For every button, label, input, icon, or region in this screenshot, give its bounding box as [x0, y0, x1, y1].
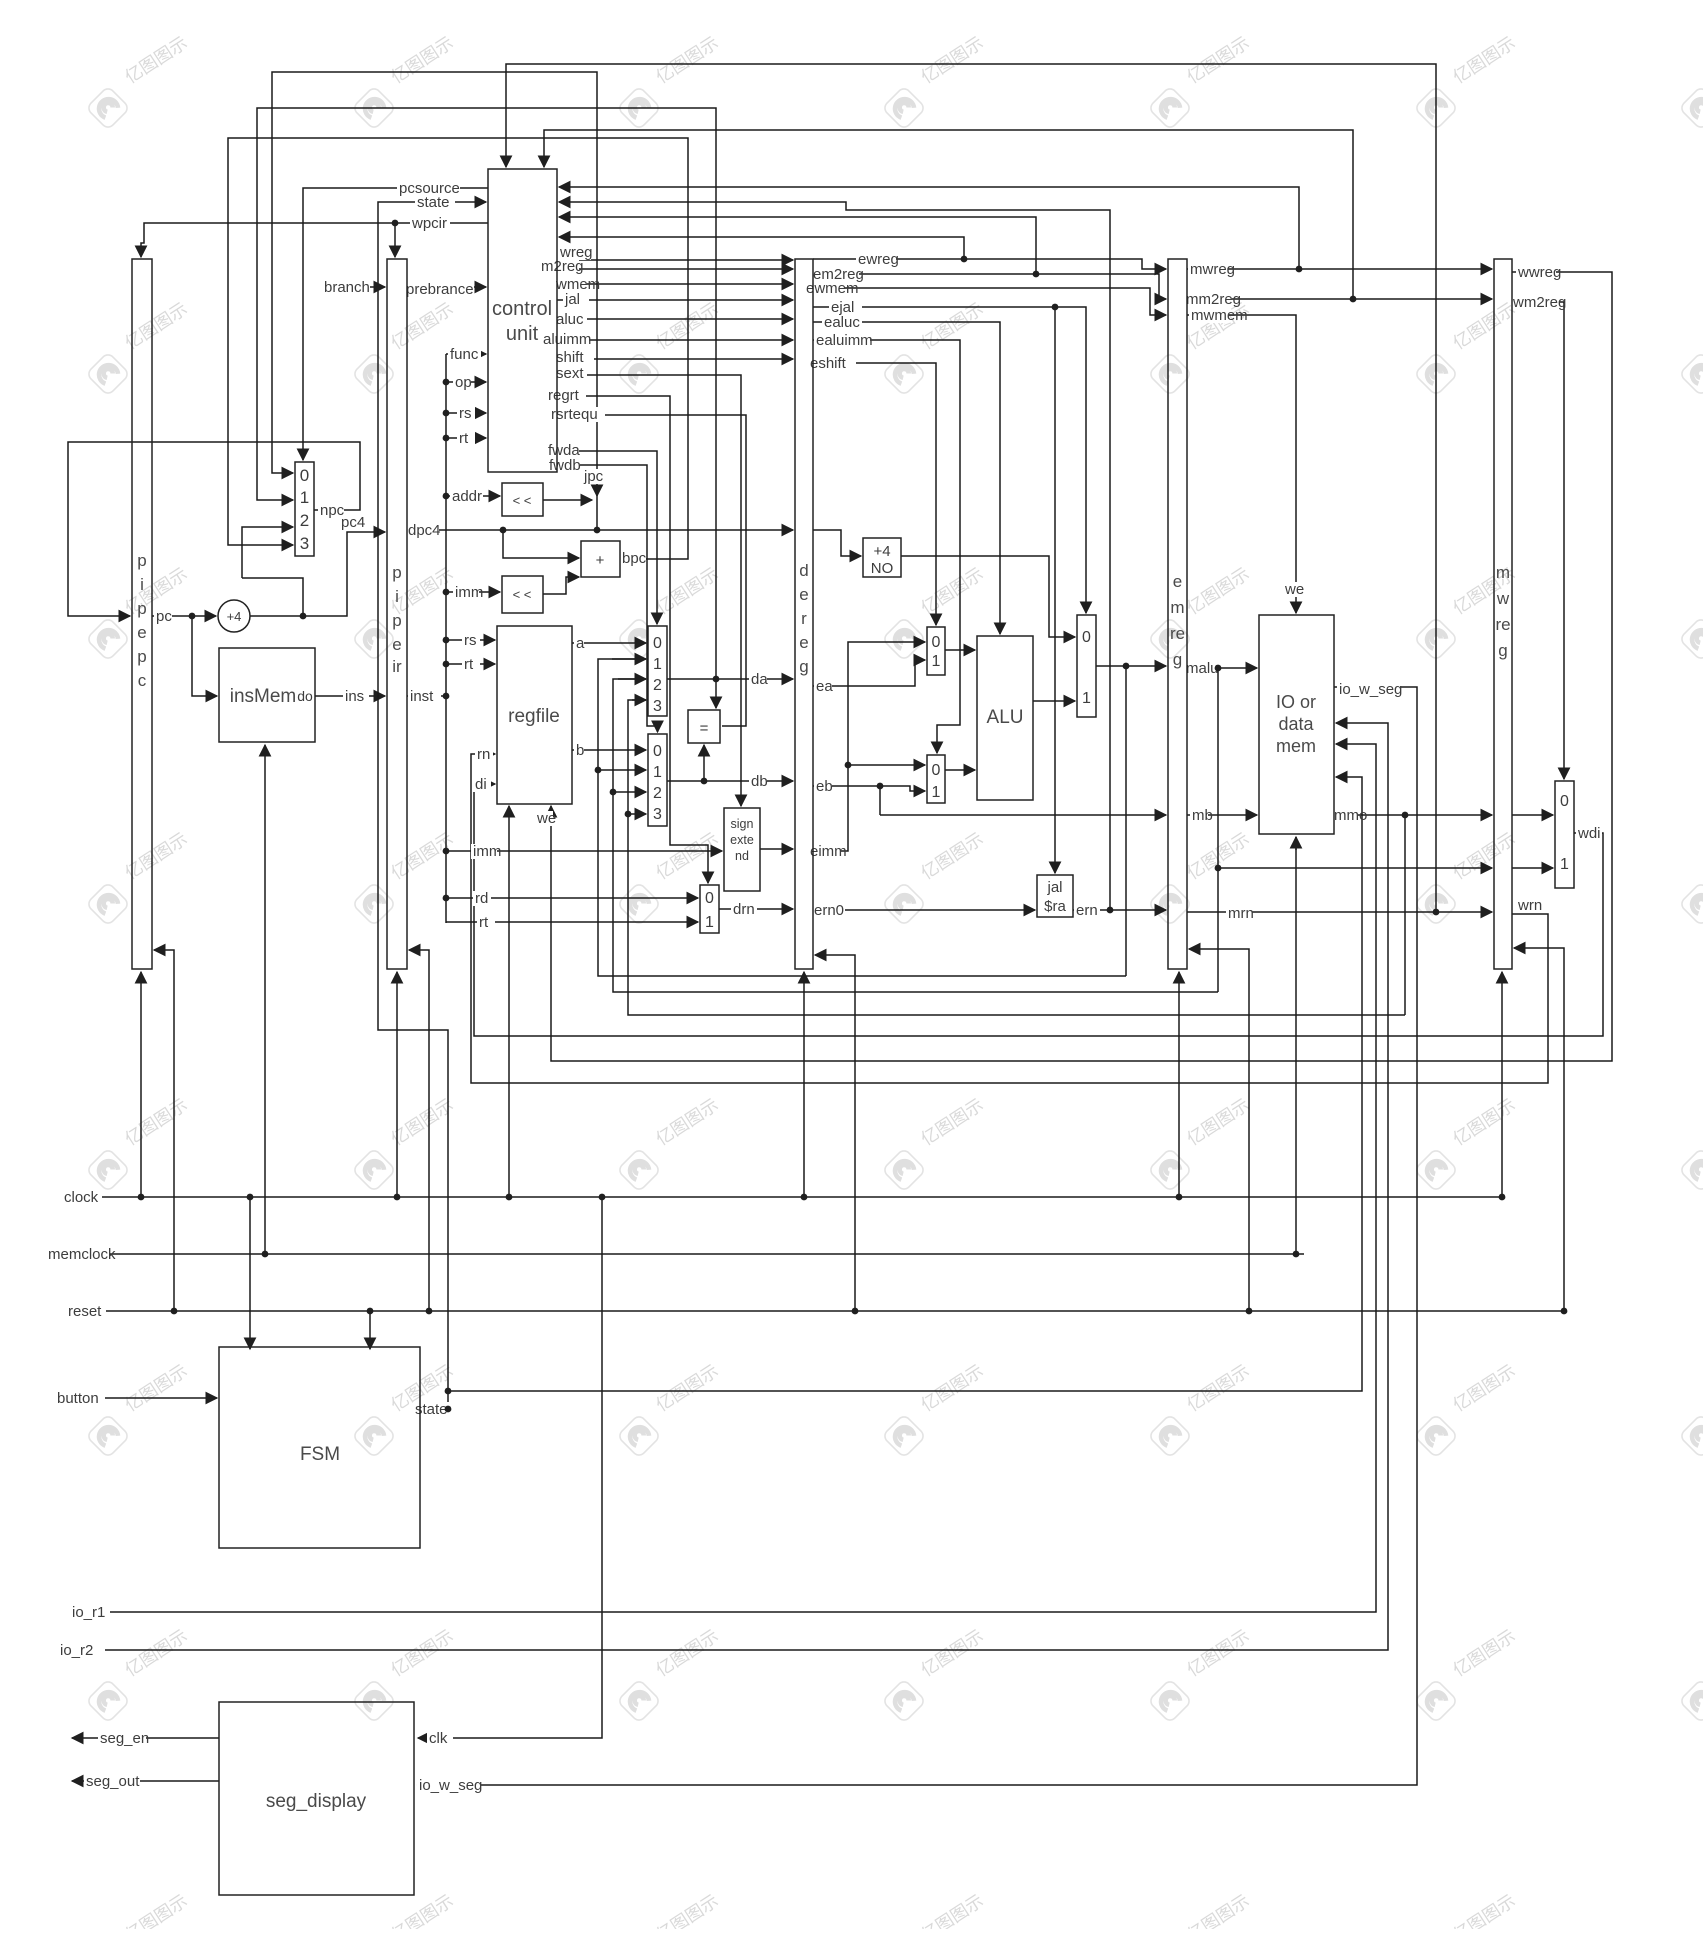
svg-text:pc: pc — [156, 608, 172, 625]
svg-text:0: 0 — [653, 635, 662, 652]
svg-text:rt: rt — [459, 430, 469, 447]
svg-text:jal: jal — [1046, 879, 1062, 896]
svg-text:eimm: eimm — [810, 843, 847, 860]
io_w_seg to seg_display — [418, 687, 1417, 1785]
svg-text:m: m — [1170, 598, 1184, 617]
shifter output jpc — [543, 499, 592, 501]
svg-text:di: di — [475, 776, 487, 793]
svg-text:insMem: insMem — [230, 686, 297, 707]
svg-text:2: 2 — [300, 511, 309, 530]
svg-text:memclock: memclock — [48, 1246, 116, 1263]
adder + (bpc) — [581, 541, 620, 577]
net ins — [343, 689, 369, 704]
rt into control unit — [446, 437, 486, 439]
rt into drn mux — [446, 921, 698, 923]
svg-text:addr: addr — [452, 488, 482, 505]
seg_en out of seg_display — [72, 1737, 219, 1739]
reset into FSM — [369, 1311, 371, 1349]
ewreg into emreg — [813, 259, 1166, 269]
svg-text:rsrtequ: rsrtequ — [551, 406, 598, 423]
mmo forwarding to mux B input 1 — [598, 769, 646, 771]
reset into pipeir — [409, 950, 429, 1311]
mmo into wdi mux input 0 — [1512, 814, 1553, 816]
svg-text:clock: clock — [64, 1189, 99, 1206]
adder +4 — [218, 600, 250, 632]
svg-text:io_w_seg: io_w_seg — [1339, 681, 1402, 698]
svg-text:data: data — [1278, 714, 1314, 734]
control signal wmem into dereg — [557, 283, 793, 285]
svg-text:prebrance: prebrance — [406, 281, 474, 298]
net eb — [814, 779, 832, 794]
mux B (4-to-1) — [648, 734, 667, 826]
db into comparator = — [703, 745, 705, 781]
net ealuimm — [814, 333, 870, 348]
malu into emreg — [1096, 665, 1166, 667]
pin state FSM — [413, 1402, 453, 1417]
svg-text:wwreg: wwreg — [1517, 264, 1561, 281]
svg-text:w: w — [1496, 589, 1510, 608]
net bpc — [620, 551, 646, 566]
svg-text:op: op — [455, 374, 472, 391]
net dpc4 — [406, 523, 439, 538]
svg-text:3: 3 — [653, 806, 662, 823]
svg-text:reset: reset — [68, 1303, 102, 1320]
pc4 into npc input 2 — [242, 527, 293, 578]
control signal jal into dereg — [557, 299, 793, 301]
eimm into mux ea input 0 — [813, 642, 925, 851]
clock into dereg — [803, 972, 805, 1197]
net wdi — [1576, 826, 1602, 841]
svg-text:regrt: regrt — [548, 387, 580, 404]
mux ea output into ALU — [945, 649, 975, 651]
svg-text:i: i — [395, 587, 399, 606]
net jal — [563, 292, 589, 307]
svg-text:aluimm: aluimm — [543, 331, 591, 348]
svg-text:1: 1 — [653, 764, 662, 781]
svg-text:r: r — [801, 609, 807, 628]
net io_w_seg — [1337, 682, 1400, 697]
mux eb (2-to-1) — [927, 755, 945, 803]
mux rd/rt (drn) — [700, 885, 719, 933]
reset into pipepc — [154, 950, 174, 1311]
net inst — [408, 689, 441, 704]
net state — [415, 195, 455, 210]
net pcsource — [397, 181, 460, 196]
net wwreg — [1516, 265, 1556, 280]
net wm2reg — [1511, 295, 1559, 310]
svg-text:wpcir: wpcir — [411, 215, 447, 232]
ern feedback into control unit right — [559, 202, 1110, 910]
svg-text:mm2reg: mm2reg — [1186, 291, 1241, 308]
net func — [448, 347, 481, 362]
svg-text:exte: exte — [730, 833, 754, 847]
jpc loop into npc input 0 — [272, 72, 597, 530]
ea into mux ea input 1 — [813, 660, 925, 686]
pc into +4 adder — [152, 615, 216, 617]
svg-text:0: 0 — [932, 762, 941, 779]
net shift — [554, 350, 594, 365]
net da — [749, 672, 767, 687]
net wreg — [558, 245, 591, 260]
inst out of pipeir — [407, 695, 446, 697]
net clock — [62, 1190, 102, 1205]
net mb — [1190, 808, 1208, 823]
db into dereg — [667, 780, 793, 782]
malu into mwreg — [1218, 867, 1492, 869]
regfile output b into mux B — [572, 749, 646, 751]
em2reg into emreg — [813, 274, 1166, 299]
rsrtequ from comparator = — [557, 415, 746, 726]
svg-text:mwreg: mwreg — [1190, 261, 1235, 278]
net imm — [453, 585, 479, 600]
fwdb to mux B select — [557, 465, 658, 732]
svg-text:we: we — [1284, 581, 1304, 598]
net ealuc — [822, 315, 862, 330]
dpc4 into adder + — [503, 530, 579, 558]
memclock line — [105, 1253, 1304, 1255]
svg-text:bpc: bpc — [622, 550, 647, 567]
svg-text:1: 1 — [1082, 690, 1091, 707]
rs into control unit — [446, 412, 486, 414]
svg-text:da: da — [751, 671, 768, 688]
net mm2reg — [1184, 292, 1232, 307]
rs into regfile — [446, 639, 495, 641]
mux npc (4-to-1) — [295, 462, 314, 556]
net a — [574, 636, 584, 651]
svg-text:imm: imm — [473, 843, 501, 860]
svg-text:wrn: wrn — [1517, 897, 1542, 914]
em2reg feedback into control unit right — [559, 217, 1036, 274]
net db — [749, 774, 767, 789]
ejal to jal unit select — [1054, 307, 1056, 873]
net wpcir — [410, 216, 450, 231]
net mrn — [1226, 906, 1252, 921]
net ern — [1074, 903, 1100, 918]
svg-text:ern0: ern0 — [814, 902, 844, 919]
svg-text:jal: jal — [564, 291, 580, 308]
reset into emreg right edge — [1189, 949, 1249, 1311]
func into control unit — [446, 353, 486, 355]
IO or data mem — [1259, 615, 1334, 834]
net reset — [66, 1304, 106, 1319]
svg-text:wm2reg: wm2reg — [1512, 294, 1566, 311]
svg-text:2: 2 — [653, 677, 662, 694]
mwmem to IO write enable — [1187, 315, 1296, 613]
svg-text:regfile: regfile — [508, 706, 560, 727]
net mwreg — [1188, 262, 1228, 277]
svg-text:< <: < < — [513, 493, 532, 508]
net seg_en — [98, 1731, 146, 1746]
svg-text:p: p — [137, 551, 146, 570]
wpcir to pipeir top — [394, 223, 396, 257]
svg-text:1: 1 — [932, 653, 941, 670]
net mwmem — [1189, 308, 1229, 323]
svg-text:re: re — [1495, 615, 1510, 634]
svg-text:ins: ins — [345, 688, 364, 705]
clock into regfile — [508, 806, 510, 1197]
svg-text:mrn: mrn — [1228, 905, 1254, 922]
wwreg to regfile write enable — [551, 272, 1612, 1061]
svg-text:g: g — [1173, 650, 1182, 669]
svg-text:p: p — [392, 611, 401, 630]
svg-text:drn: drn — [733, 901, 755, 918]
eb into mux eb input 1 — [813, 786, 925, 791]
mux eb output into ALU — [945, 769, 975, 771]
seg_display — [219, 1702, 414, 1895]
svg-text:do: do — [297, 688, 313, 704]
net button — [55, 1391, 103, 1406]
rd into drn mux — [446, 897, 698, 899]
da into comparator = — [715, 679, 717, 708]
seg_out out of seg_display — [72, 1780, 219, 1782]
svg-text:< <: < < — [513, 587, 532, 602]
mmo forwarding branch down — [1404, 815, 1406, 1015]
dpc4 into dereg — [407, 529, 793, 531]
+4 NO output into mux input 0 — [901, 556, 1075, 637]
eb branch to mb line — [879, 786, 881, 815]
net io_r2 — [58, 1643, 98, 1658]
net imm signext — [471, 844, 497, 859]
pipeline register pipeir — [387, 259, 407, 969]
control signal aluimm into dereg — [557, 339, 793, 341]
drn into dereg — [719, 908, 793, 910]
eimm into dereg — [760, 848, 793, 850]
malu forwarding to mux A input 2 — [613, 679, 1218, 992]
jpc junction arrow — [596, 488, 598, 496]
FSM — [219, 1347, 420, 1548]
ern into emreg — [1073, 909, 1166, 911]
ealu forwarding to mux A input 1 — [598, 659, 1126, 976]
svg-text:0: 0 — [1082, 629, 1091, 646]
net eimm — [808, 844, 841, 859]
comparator = — [688, 710, 720, 743]
mb into emreg — [880, 814, 1166, 816]
net ewmem — [804, 281, 844, 296]
net eshift — [808, 356, 856, 371]
svg-text:pc4: pc4 — [341, 514, 365, 531]
svg-text:io_r2: io_r2 — [60, 1642, 93, 1659]
mux after ALU (2-to-1) — [1077, 615, 1096, 717]
svg-text:ea: ea — [816, 678, 833, 695]
svg-text:m: m — [1496, 563, 1510, 582]
net b — [574, 743, 584, 758]
svg-text:+: + — [596, 552, 605, 569]
svg-text:2: 2 — [653, 785, 662, 802]
svg-text:dpc4: dpc4 — [408, 522, 441, 539]
net rs — [457, 406, 475, 421]
pc4 into pipeir — [250, 532, 385, 616]
net mmo — [1332, 808, 1358, 823]
svg-text:ALU: ALU — [987, 707, 1024, 728]
svg-text:p: p — [392, 563, 401, 582]
svg-text:ealuc: ealuc — [824, 314, 860, 331]
net wmem — [554, 277, 587, 292]
da loop into npc input 1 — [257, 108, 716, 679]
button into FSM — [105, 1397, 217, 1399]
svg-text:shift: shift — [556, 349, 584, 366]
mrn into mwreg — [1187, 911, 1492, 913]
wm2reg to wdi mux select — [1512, 302, 1564, 779]
malu forwarding to mux B input 2 — [613, 791, 646, 793]
memclock riser to IO bottom — [1295, 837, 1297, 1254]
ewmem into emreg — [813, 288, 1166, 315]
svg-text:1: 1 — [653, 656, 662, 673]
net em2reg — [811, 267, 859, 282]
svg-text:rs: rs — [464, 632, 477, 649]
net fwdb — [547, 458, 580, 473]
svg-text:func: func — [450, 346, 479, 363]
eshift to mux ea select — [813, 363, 936, 625]
mm2reg feedback into control unit top — [544, 130, 1353, 299]
clock clk into seg_display — [418, 1197, 602, 1738]
mwreg feedback into control unit right — [559, 187, 1299, 269]
svg-text:0: 0 — [932, 634, 941, 651]
inst field distribution bus — [445, 354, 447, 923]
svg-text:jpc: jpc — [583, 468, 604, 485]
mmo forwarding to mux B input 3 — [628, 813, 646, 815]
svg-text:rn: rn — [477, 746, 490, 763]
ALU output into mux input 1 — [1033, 700, 1075, 702]
net regrt — [546, 388, 586, 403]
svg-text:e: e — [1173, 572, 1182, 591]
pin io_w_seg seg_display — [417, 1778, 480, 1793]
svg-text:mb: mb — [1192, 807, 1213, 824]
mux wdi (2-to-1) — [1555, 781, 1574, 888]
svg-text:ern: ern — [1076, 902, 1098, 919]
pin clk seg_display — [427, 1731, 453, 1746]
imm into shifter — [446, 591, 500, 593]
control signal wreg into dereg — [557, 259, 793, 261]
net ern0 — [812, 903, 845, 918]
svg-text:wdi: wdi — [1577, 825, 1601, 842]
svg-text:seg_en: seg_en — [100, 1730, 149, 1747]
svg-text:0: 0 — [653, 743, 662, 760]
svg-text:1: 1 — [300, 488, 309, 507]
svg-text:b: b — [576, 742, 584, 759]
mb into IO or data mem — [1187, 814, 1257, 816]
svg-text:malu: malu — [1186, 660, 1219, 677]
net prebrance — [404, 282, 474, 297]
svg-text:db: db — [751, 773, 768, 790]
net aluc — [554, 312, 587, 327]
svg-text:seg_out: seg_out — [86, 1773, 140, 1790]
net jpc — [582, 469, 608, 484]
malu forwarding branch down — [1217, 668, 1219, 992]
net ea — [814, 679, 832, 694]
+4 NO unit — [863, 538, 901, 577]
clock into emreg — [1178, 972, 1180, 1197]
svg-text:ir: ir — [392, 657, 402, 676]
io_r2 into IO or data mem — [105, 723, 1388, 1650]
pc into insMem — [192, 616, 217, 696]
svg-text:g: g — [1498, 641, 1507, 660]
net rs regfile — [462, 633, 480, 648]
svg-text:nd: nd — [735, 849, 749, 863]
ins into pipeir — [315, 695, 385, 697]
ALU — [977, 636, 1033, 800]
state from FSM into control unit — [378, 202, 486, 1409]
mmo into mwreg — [1334, 814, 1492, 816]
state into IO or data mem — [448, 777, 1362, 1391]
control unit — [488, 169, 557, 472]
svg-text:e: e — [799, 633, 808, 652]
fwda to mux A select — [557, 451, 657, 624]
pipeline register dereg — [795, 259, 813, 969]
net pc — [154, 609, 172, 624]
svg-text:rs: rs — [459, 405, 472, 422]
rt into regfile — [446, 663, 495, 665]
ealuc to ALU select — [813, 322, 1000, 634]
svg-text:io_r1: io_r1 — [72, 1604, 105, 1621]
reset line — [105, 1310, 1564, 1312]
svg-text:mmo: mmo — [1334, 807, 1367, 824]
svg-text:=: = — [700, 720, 709, 737]
wdi to regfile di — [474, 784, 1603, 1036]
pipeline register pipepc — [132, 259, 152, 969]
net pc4 — [339, 515, 365, 530]
shifted imm into adder + — [543, 577, 579, 594]
net addr — [450, 489, 483, 504]
control signal m2reg into dereg — [557, 268, 793, 270]
mux ea (2-to-1) — [927, 627, 945, 675]
wrn to regfile rn — [471, 754, 1548, 1083]
svg-text:eshift: eshift — [810, 355, 847, 372]
svg-text:seg_display: seg_display — [266, 1791, 367, 1812]
svg-text:m2reg: m2reg — [541, 258, 584, 275]
svg-text:FSM: FSM — [300, 1444, 340, 1465]
ealuimm to mux eb select — [813, 340, 960, 753]
net ejal — [829, 300, 862, 315]
svg-text:g: g — [799, 657, 808, 676]
svg-text:control: control — [492, 298, 552, 320]
svg-text:e: e — [137, 623, 146, 642]
npc feedback loop into pipepc — [68, 442, 360, 616]
io_r1 into IO or data mem — [105, 744, 1376, 1612]
net rt drn — [477, 915, 495, 930]
net rsrtequ — [549, 407, 605, 422]
clock into FSM — [249, 1197, 251, 1349]
net fwda — [546, 443, 579, 458]
svg-text:state: state — [417, 194, 450, 211]
net ewreg — [856, 252, 896, 267]
memclock into insMem — [264, 745, 266, 1254]
shifter << (imm) — [502, 576, 543, 613]
svg-text:1: 1 — [705, 914, 714, 931]
pc4 branch to npc bus — [242, 578, 303, 616]
mm2reg signal into mwreg register — [1187, 298, 1492, 300]
ejal to mux select — [813, 307, 1086, 613]
svg-text:i: i — [140, 575, 144, 594]
net op — [453, 375, 471, 390]
net npc — [318, 503, 344, 518]
svg-text:p: p — [137, 599, 146, 618]
net malu — [1184, 661, 1217, 676]
jal $ra unit — [1037, 875, 1073, 917]
svg-text:e: e — [799, 585, 808, 604]
ern0 into jal unit — [813, 909, 1035, 911]
pin rn regfile — [475, 747, 493, 762]
pin we regfile — [535, 811, 553, 826]
svg-text:3: 3 — [300, 534, 309, 553]
svg-text:IO or: IO or — [1276, 692, 1316, 712]
svg-text:1: 1 — [1560, 856, 1569, 873]
svg-text:ealuimm: ealuimm — [816, 332, 873, 349]
svg-text:rt: rt — [479, 914, 489, 931]
svg-text:clk: clk — [429, 1730, 448, 1747]
mmo forwarding to mux A input 3 — [628, 700, 1405, 1015]
mux A (4-to-1) — [648, 626, 667, 716]
svg-text:d: d — [799, 561, 808, 580]
